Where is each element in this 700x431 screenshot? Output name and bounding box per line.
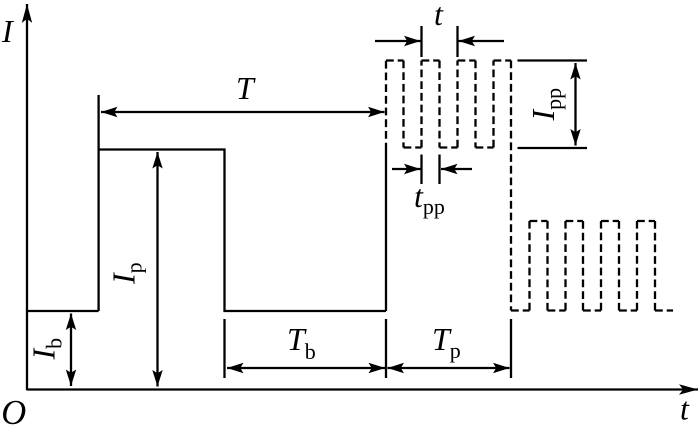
svg-text:I: I: [1, 13, 14, 49]
svg-text:O: O: [1, 394, 26, 431]
svg-text:Tb: Tb: [287, 321, 316, 364]
svg-text:Ib: Ib: [26, 338, 67, 361]
svg-text:Ipp: Ipp: [525, 88, 566, 122]
svg-text:T: T: [236, 70, 256, 106]
svg-text:t: t: [434, 0, 444, 32]
svg-text:tpp: tpp: [414, 178, 445, 219]
svg-text:Ip: Ip: [106, 262, 147, 285]
svg-text:Tp: Tp: [432, 321, 461, 363]
svg-text:t: t: [680, 391, 690, 427]
